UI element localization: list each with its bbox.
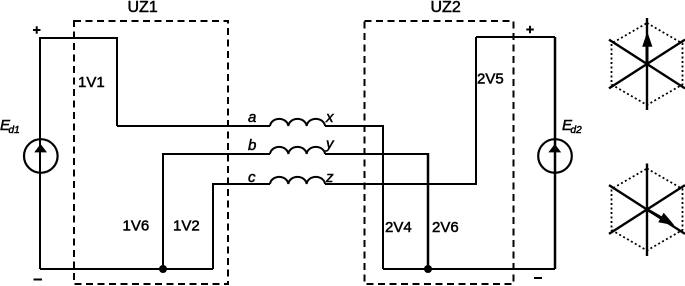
svg-text:1V6: 1V6	[123, 218, 150, 235]
svg-text:z: z	[325, 169, 334, 186]
svg-text:y: y	[325, 136, 335, 153]
svg-text:2V6: 2V6	[432, 219, 459, 236]
svg-text:b: b	[248, 137, 256, 154]
svg-text:2V4: 2V4	[385, 219, 412, 236]
svg-text:x: x	[325, 109, 334, 126]
svg-text:2V5: 2V5	[477, 71, 504, 88]
svg-text:UZ1: UZ1	[128, 0, 158, 16]
svg-text:UZ2: UZ2	[431, 0, 461, 16]
svg-text:c: c	[248, 169, 256, 186]
svg-text:1V1: 1V1	[78, 74, 105, 91]
svg-text:1V2: 1V2	[173, 218, 200, 235]
svg-text:Ed2: Ed2	[562, 117, 582, 136]
svg-text:a: a	[248, 109, 256, 126]
svg-text:Ed1: Ed1	[0, 117, 20, 136]
